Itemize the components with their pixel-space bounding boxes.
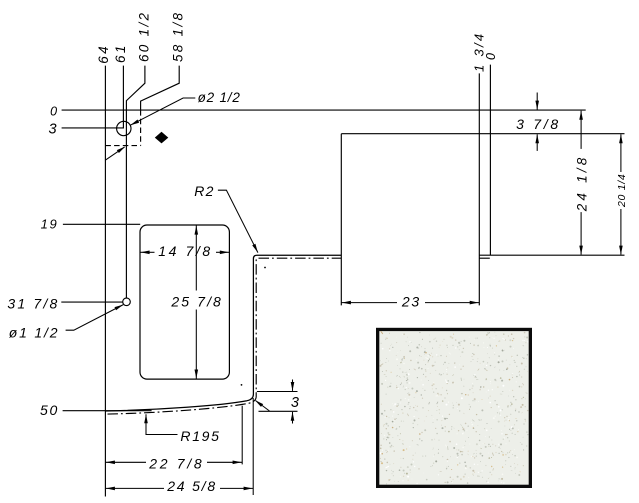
- node sink-cutout: [140, 225, 229, 379]
- node dim-22-78: [105, 406, 242, 465]
- node dim-23: [341, 302, 479, 304]
- node dashed-square: [105, 110, 140, 146]
- svg-text:64: 64: [96, 44, 111, 64]
- node 58eighth-line: [141, 66, 180, 111]
- node 0-right-line: [489, 65, 491, 256]
- node dim-24-18: [580, 111, 582, 149]
- node 50-line: [63, 410, 152, 412]
- node dim-14-78: [140, 251, 229, 253]
- svg-text:50: 50: [40, 402, 59, 418]
- node 19-line: [63, 223, 140, 225]
- svg-text:14 7/8: 14 7/8: [158, 243, 213, 259]
- svg-text:3 7/8: 3 7/8: [516, 116, 561, 132]
- svg-text:1 3/4: 1 3/4: [472, 32, 487, 72]
- node arc-center-dot-1: [264, 267, 266, 269]
- node material-sample-swatch: [376, 328, 532, 488]
- node leader-dia1-12: [66, 305, 124, 331]
- wire: [61, 65, 624, 497]
- node dim-25-78: [195, 225, 197, 379]
- wire edge-profile-dashdot: [108, 258, 342, 414]
- node 3-line: [62, 127, 124, 129]
- svg-text:R2: R2: [194, 183, 214, 199]
- svg-text:23: 23: [401, 294, 421, 310]
- node diamond-marker: [155, 132, 169, 144]
- node dim-24-58: [105, 398, 253, 495]
- svg-text:19: 19: [41, 216, 59, 231]
- svg-text:R195: R195: [180, 428, 220, 444]
- svg-text:20 1/4: 20 1/4: [616, 174, 628, 208]
- node leader-corner: [256, 401, 270, 412]
- svg-text:ø2 1/2: ø2 1/2: [198, 90, 241, 105]
- node leader-R195: [146, 414, 178, 434]
- node front-edge-right: [479, 254, 624, 256]
- svg-text:25 7/8: 25 7/8: [170, 293, 223, 309]
- node 61-line: [122, 66, 124, 129]
- svg-text:0: 0: [50, 105, 58, 119]
- node 1-34-line: [478, 73, 480, 305]
- node top-edge-0-line: [62, 109, 586, 111]
- node dim-3-78: [536, 93, 538, 110]
- node leader-R2: [218, 190, 258, 252]
- svg-text:60 1/2: 60 1/2: [136, 11, 151, 62]
- node 31-78-line: [61, 301, 122, 303]
- svg-text:61: 61: [113, 43, 128, 63]
- svg-text:0: 0: [484, 52, 498, 60]
- node left-edge-64-line: [104, 66, 106, 497]
- node dim-3-bottom: [257, 380, 298, 424]
- node leader-dia2-12: [130, 98, 195, 125]
- node appliance-top-edge: [341, 133, 624, 135]
- svg-text:22 7/8: 22 7/8: [148, 456, 204, 472]
- node dim-20-14: [620, 134, 622, 172]
- svg-text:58 1/8: 58 1/8: [171, 11, 186, 62]
- node arc-center-dot-2: [241, 384, 243, 386]
- wire countertop-front-edge: [106, 255, 341, 411]
- node appliance-left-edge: [340, 134, 342, 306]
- node leader-unlabeled: [105, 147, 124, 160]
- svg-text:ø1 1/2: ø1 1/2: [9, 325, 60, 341]
- svg-text:3: 3: [291, 395, 300, 411]
- svg-text:24 5/8: 24 5/8: [166, 478, 217, 494]
- node 60half-line: [126, 66, 144, 298]
- node hole-small: [123, 298, 131, 306]
- node faucet-hole-big: [117, 121, 131, 135]
- svg-text:31 7/8: 31 7/8: [7, 296, 59, 312]
- svg-text:24 1/8: 24 1/8: [575, 155, 590, 213]
- svg-text:3: 3: [49, 122, 58, 138]
